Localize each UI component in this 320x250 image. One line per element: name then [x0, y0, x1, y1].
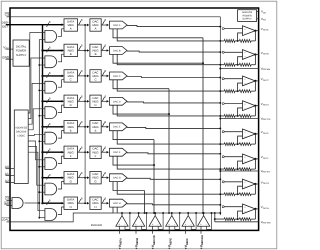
wire inverting input E — [238, 136, 243, 144]
node strobe tap H — [39, 217, 45, 219]
node feedback tap D — [237, 115, 239, 117]
wire decode output C — [28, 83, 45, 124]
node gain bus tap E — [219, 143, 221, 145]
wire output H — [255, 208, 258, 210]
register DAC REG D — [90, 95, 101, 107]
dac DAC D — [110, 97, 128, 105]
and-gate row E — [45, 132, 57, 144]
node feedback tap G — [237, 193, 239, 195]
pin VREF sense 2 — [220, 118, 258, 120]
op-amp output amplifier B — [243, 50, 256, 60]
op-amp output amplifier C — [243, 76, 256, 86]
wire bus branch G — [43, 177, 64, 179]
svg-text:A1: A1 — [5, 172, 9, 176]
pin reference input 6 — [200, 226, 202, 234]
svg-text:ADDRESS: ADDRESS — [15, 127, 27, 130]
wire register E to DAC — [101, 126, 108, 128]
wire DAC G reference low / gain common — [117, 182, 224, 195]
wire gain network F — [235, 168, 239, 170]
wire register C to DAC — [101, 75, 108, 77]
wire decode output F — [28, 141, 45, 160]
node clock tap G — [84, 177, 86, 179]
register DATA REG B — [64, 44, 78, 56]
op-amp output amplifier G — [243, 179, 256, 189]
svg-text:DAC G: DAC G — [113, 177, 121, 180]
and-gate row H — [45, 209, 57, 221]
svg-text:CS: CS — [5, 196, 9, 200]
bus width marker 8 mid C — [79, 72, 81, 76]
node DAC D output junction — [219, 102, 221, 104]
node gain bus tap G — [219, 193, 221, 195]
wire gain network A — [235, 40, 239, 42]
svg-text:D: D — [94, 103, 96, 107]
resistor R1C — [224, 90, 235, 93]
node DAC F output junction — [219, 153, 221, 155]
pin reference input 2 — [135, 226, 137, 234]
node DAC E output junction — [219, 127, 221, 129]
svg-text:SUPPLY: SUPPLY — [16, 54, 27, 57]
svg-text:G: G — [94, 179, 96, 183]
svg-text:DECODE: DECODE — [16, 131, 27, 134]
wire amplifier H positive input — [222, 206, 224, 208]
svg-text:SUPPLY: SUPPLY — [242, 18, 252, 21]
wire decode output A — [28, 33, 45, 114]
wire buffer 2 feedback loop — [142, 213, 147, 229]
register DAC REG F — [90, 146, 101, 158]
node buffer 3 feedback tap — [162, 212, 164, 214]
svg-text:H: H — [94, 205, 96, 209]
svg-text:DAC F: DAC F — [113, 151, 121, 154]
register DAC REG G — [90, 172, 101, 184]
and-gate row F — [45, 158, 57, 170]
node strobe tap F — [39, 166, 45, 168]
node feedback tap C — [237, 90, 239, 92]
wire strobe vertical x39 — [38, 40, 40, 218]
svg-text:LOGIC: LOGIC — [17, 135, 25, 138]
and-gate row D — [45, 107, 57, 119]
node clock tap B — [84, 50, 86, 52]
wire CS to right vertical — [10, 16, 220, 18]
bus width marker 8 into register H — [47, 201, 49, 205]
buffer reference amplifier 4 — [166, 216, 178, 227]
wire register G to DAC — [101, 177, 108, 179]
resistor R2A — [239, 39, 251, 42]
svg-text:A: A — [95, 27, 97, 31]
bus width marker 8 out E — [102, 123, 104, 127]
node strobe tap G — [39, 191, 45, 193]
wire bus branch E — [43, 126, 64, 128]
wire output D — [255, 105, 258, 107]
node buffer 2 feedback tap — [146, 212, 148, 214]
dac DAC E — [110, 123, 128, 131]
wire DAC B reference high — [113, 54, 203, 63]
node buffer 6 bus — [203, 212, 205, 214]
node DAC A output junction — [219, 26, 221, 28]
wire buffer 5 feedback loop — [191, 213, 196, 229]
wire bus branch B — [43, 50, 64, 52]
wire feedback H — [254, 209, 256, 219]
node feedback tap A — [237, 40, 239, 42]
wire feedback A — [254, 31, 256, 41]
node gain bus tap H — [214, 218, 216, 220]
register DATA REG A — [64, 19, 78, 31]
wire inverting input F — [238, 161, 243, 169]
bus width marker 8 mid G — [79, 174, 81, 178]
pin reference input 4 — [168, 226, 170, 234]
bus width marker 8 into register F — [47, 150, 49, 154]
wire bus branch F — [43, 151, 64, 153]
register DATA REG D — [64, 95, 78, 107]
wire reference bus x169 — [168, 89, 170, 213]
wire bus branch H — [43, 202, 64, 204]
wire gate H output — [58, 207, 64, 215]
node DAC C output junction — [219, 77, 221, 79]
wire register A to DAC — [101, 24, 108, 26]
buffer reference amplifier 1 — [116, 216, 128, 227]
node ref join D — [168, 113, 170, 115]
wire gate E output — [58, 131, 64, 139]
op-amp output amplifier A — [243, 26, 256, 36]
wire data B between registers — [78, 50, 89, 52]
wire gate C output — [58, 80, 64, 88]
node output C — [254, 80, 256, 82]
bus width marker 8 into register C — [47, 74, 49, 78]
bus width marker 8 into register B — [47, 48, 49, 52]
node reference bus join x203 — [202, 212, 204, 214]
svg-text:DAC H: DAC H — [113, 202, 121, 205]
wire decode output B — [28, 58, 45, 119]
node buffer 1 feedback tap — [129, 212, 131, 214]
wire reference bus x203 — [202, 38, 204, 213]
resistor R1H — [224, 218, 235, 221]
svg-text:DAC C: DAC C — [113, 75, 121, 78]
bus width marker 8 mid D — [79, 97, 81, 101]
node output E — [254, 133, 256, 135]
wire output B — [255, 54, 258, 56]
wire decode output G — [28, 147, 45, 186]
wire bus branch D — [43, 100, 64, 102]
node bus junction E — [41, 126, 43, 128]
resistor R2B — [239, 63, 251, 66]
wire DAC D reference high — [113, 105, 169, 114]
node strobe tap C — [39, 89, 45, 91]
wire gain network G — [235, 193, 239, 195]
node gain bus tap C — [219, 90, 221, 92]
node DAC H output junction — [219, 204, 221, 206]
bus width marker 8 out H — [102, 199, 104, 203]
wire feedback C — [254, 81, 256, 91]
wire register H to DAC — [101, 202, 108, 204]
svg-text:C: C — [94, 78, 96, 82]
node ref join B — [202, 62, 204, 64]
wire DAC E reference high — [113, 131, 154, 140]
wire gate B output — [58, 54, 64, 62]
wire data A between registers — [78, 24, 89, 26]
bus width marker 8 out G — [102, 174, 104, 178]
wire inverting input B — [238, 57, 243, 65]
svg-text:DAC B: DAC B — [113, 49, 121, 52]
svg-text:B: B — [95, 52, 97, 56]
wire DAC F output to bus — [127, 153, 220, 154]
wire output E — [255, 133, 258, 135]
wire DAC F reference high — [113, 156, 154, 165]
bus width marker 8 out B — [102, 46, 104, 50]
svg-text:H: H — [70, 205, 72, 209]
bus width marker 8 into register E — [47, 125, 49, 129]
bus width marker 8 mid H — [79, 199, 81, 203]
wire data C between registers — [78, 75, 89, 77]
node clock tap A — [84, 24, 86, 26]
wire DAC D output to bus — [127, 102, 220, 103]
wire feedback E — [254, 134, 256, 144]
bus width marker 8 out C — [102, 72, 104, 76]
and-gate row B — [45, 56, 57, 68]
pin VREF sense 1 — [220, 68, 258, 70]
svg-text:F: F — [70, 154, 72, 158]
svg-text:WR: WR — [4, 202, 10, 206]
wire output G — [255, 183, 258, 185]
pin VDD — [257, 11, 259, 13]
svg-text:C: C — [70, 78, 72, 82]
register DATA REG H — [64, 197, 78, 209]
wire DAC E output to bus — [127, 126, 220, 129]
wire buffer 1 feedback loop — [125, 213, 130, 229]
wire DAC E reference low / gain common — [117, 131, 224, 144]
node buffer 5 feedback tap — [195, 212, 197, 214]
wire amplifier D positive input — [222, 103, 224, 105]
address decode logic block — [14, 110, 28, 184]
wire output C — [255, 80, 258, 82]
wire data E between registers — [78, 126, 89, 128]
wire DB parallel bus (bold) — [6, 24, 63, 26]
bus width marker 8 mid E — [79, 123, 81, 127]
svg-text:E: E — [70, 129, 72, 133]
dac DAC G — [110, 174, 128, 182]
bus width marker 8 into register A — [47, 23, 49, 27]
pin VREF sense 3 — [220, 170, 258, 172]
pin reference input 3 — [152, 226, 154, 234]
wire reference bus x154 — [153, 140, 155, 213]
node buffer 5 bus — [187, 212, 189, 214]
wire gate D output — [58, 105, 64, 113]
pin reference input 1 — [118, 226, 120, 234]
wire amplifier C positive input — [222, 78, 224, 80]
register DAC REG B — [90, 44, 101, 56]
node feedback tap H — [237, 218, 239, 220]
wire inverting input H — [238, 211, 243, 219]
wire DAC A output to bus — [127, 26, 220, 27]
node strobe tap E — [39, 140, 45, 142]
dac DAC H — [110, 199, 128, 207]
node bus junction G — [41, 177, 43, 179]
node gain bus tap B — [219, 64, 221, 66]
register DATA REG C — [64, 70, 78, 82]
wire feedback F — [254, 159, 256, 169]
node strobe tap B — [39, 64, 45, 66]
wire gain network D — [235, 115, 239, 117]
wire buffer 6 output — [203, 213, 205, 216]
wire gain network B — [235, 64, 239, 66]
node strobe tap D — [39, 115, 45, 117]
node gain bus tap D — [219, 115, 221, 117]
svg-text:DAC A: DAC A — [113, 24, 121, 27]
node reference bus join x169 — [168, 212, 170, 214]
wire DAC G reference high — [113, 182, 145, 191]
wire decode output H — [28, 152, 45, 211]
wire buffer 3 feedback loop — [158, 213, 163, 229]
wire data F between registers — [78, 151, 89, 153]
digital power supply block — [13, 40, 29, 66]
node feedback tap F — [237, 168, 239, 170]
wire data H between registers — [78, 202, 89, 204]
svg-text:D: D — [70, 103, 72, 107]
pin reference input 5 — [185, 226, 187, 234]
node gain bus tap A — [219, 40, 221, 42]
svg-text:B: B — [70, 52, 72, 56]
node buffer 4 bus — [171, 212, 173, 214]
register DAC REG E — [90, 121, 101, 133]
node DAC B output junction — [219, 51, 221, 53]
buffer reference amplifier 5 — [182, 216, 194, 227]
wire amplifier B positive input — [222, 51, 224, 53]
wire gate G output — [58, 182, 64, 190]
register DAC REG C — [90, 70, 101, 82]
node reference bus join x144 — [144, 212, 146, 214]
resistor R2F — [239, 168, 251, 171]
pin VREF sense 4 — [214, 219, 216, 222]
register DAC REG A — [90, 19, 101, 31]
and-gate CS-WR strobe — [12, 198, 23, 209]
wire DAC D reference low / gain common — [117, 105, 224, 116]
op-amp output amplifier H — [243, 204, 256, 214]
op-amp output amplifier D — [243, 101, 256, 111]
svg-text:F: F — [95, 154, 97, 158]
wire strobe to vertical — [25, 202, 40, 204]
node ref join F — [153, 164, 155, 166]
node feedback tap B — [237, 64, 239, 66]
wire DAC H output to bus — [127, 204, 220, 205]
resistor R2C — [239, 90, 251, 93]
node output B — [254, 53, 256, 55]
register DATA REG F — [64, 146, 78, 158]
resistor R1B — [224, 63, 235, 66]
wire register B to DAC — [101, 50, 108, 52]
wire buffer 5 output — [187, 213, 189, 216]
resistor R2D — [239, 115, 251, 118]
node clock tap C — [84, 75, 86, 77]
node bus junction H — [41, 202, 43, 204]
analog power supply block — [238, 10, 257, 22]
resistor R1A — [224, 39, 235, 42]
node buffer 1 bus — [121, 212, 123, 214]
wire gain network E — [235, 143, 239, 145]
svg-text:DAC D: DAC D — [113, 100, 121, 103]
chip boundary — [10, 8, 259, 230]
node output H — [254, 208, 256, 210]
wire DAC A reference high — [113, 29, 203, 38]
wire buffer 1 output — [121, 213, 123, 216]
wire buffer 2 output — [138, 213, 140, 216]
wire DAC A reference low / gain common — [117, 29, 224, 41]
node feedback tap E — [237, 143, 239, 145]
svg-text:LDAC: LDAC — [2, 217, 10, 221]
wire inverting input A — [238, 33, 243, 41]
wire gate F output — [58, 156, 64, 164]
wire inverting input C — [238, 83, 243, 91]
wire amplifier A positive input — [222, 28, 224, 30]
svg-text:BUFFER: BUFFER — [91, 223, 102, 227]
bus width marker 8 mid A — [79, 21, 81, 25]
wire register D to DAC — [101, 100, 108, 102]
node output G — [254, 183, 256, 185]
node reference bus join x154 — [153, 212, 155, 214]
resistor R2H — [239, 218, 251, 221]
op-amp output amplifier F — [243, 154, 256, 164]
node clock tap F — [84, 151, 86, 153]
resistor R2E — [239, 143, 251, 146]
node buffer 2 bus — [138, 212, 140, 214]
node clock tap E — [84, 126, 86, 128]
wire amplifier G positive input — [222, 181, 224, 183]
bus width marker 8 out A — [102, 21, 104, 25]
wire DAC B reference low / gain common — [117, 54, 224, 64]
wire reference bus x144 — [144, 191, 146, 214]
wire DAC B output to bus — [127, 51, 220, 52]
node bus junction D — [41, 100, 43, 102]
dac DAC F — [110, 148, 128, 156]
wire DB bus vertical — [42, 25, 44, 204]
resistor R1E — [224, 143, 235, 146]
and-gate row A — [45, 30, 57, 42]
and-gate row G — [45, 183, 57, 195]
node buffer 6 feedback tap — [211, 212, 213, 214]
buffer reference amplifier 2 — [132, 216, 144, 227]
svg-text:CS: CS — [5, 13, 10, 17]
svg-text:A: A — [70, 27, 72, 31]
node clock tap D — [84, 100, 86, 102]
wire DAC G output to bus — [127, 178, 220, 179]
dac DAC A — [110, 21, 128, 29]
wire DAC C reference low / gain common — [117, 80, 224, 91]
bus width marker 8 out F — [102, 148, 104, 152]
svg-text:A2: A2 — [5, 179, 9, 183]
pin VSS — [257, 18, 259, 20]
node strobe join — [38, 202, 40, 204]
wire buffer 3 output — [154, 213, 156, 216]
wire CS vertical bus x219 — [219, 17, 221, 215]
wire buffer 6 feedback loop — [207, 213, 212, 229]
wire DAC H reference high — [112, 207, 114, 213]
wire amplifier E positive input — [222, 131, 224, 133]
svg-text:G: G — [70, 179, 72, 183]
wire LDAC — [10, 213, 113, 222]
bus width marker 8 into register G — [47, 176, 49, 180]
wire output A — [255, 30, 258, 32]
and-gate row C — [45, 81, 57, 93]
wire inverting input G — [238, 186, 243, 194]
wire data G between registers — [78, 177, 89, 179]
wire buffer bus — [113, 212, 220, 214]
wire decode output D — [28, 109, 45, 130]
svg-text:E: E — [95, 129, 97, 133]
op-amp output amplifier E — [243, 129, 256, 139]
register DATA REG G — [64, 172, 78, 184]
wire data D between registers — [78, 100, 89, 102]
register DATA REG E — [64, 121, 78, 133]
wire gain network C — [235, 90, 239, 92]
resistor R1D — [224, 115, 235, 118]
node buffer 3 bus — [154, 212, 156, 214]
